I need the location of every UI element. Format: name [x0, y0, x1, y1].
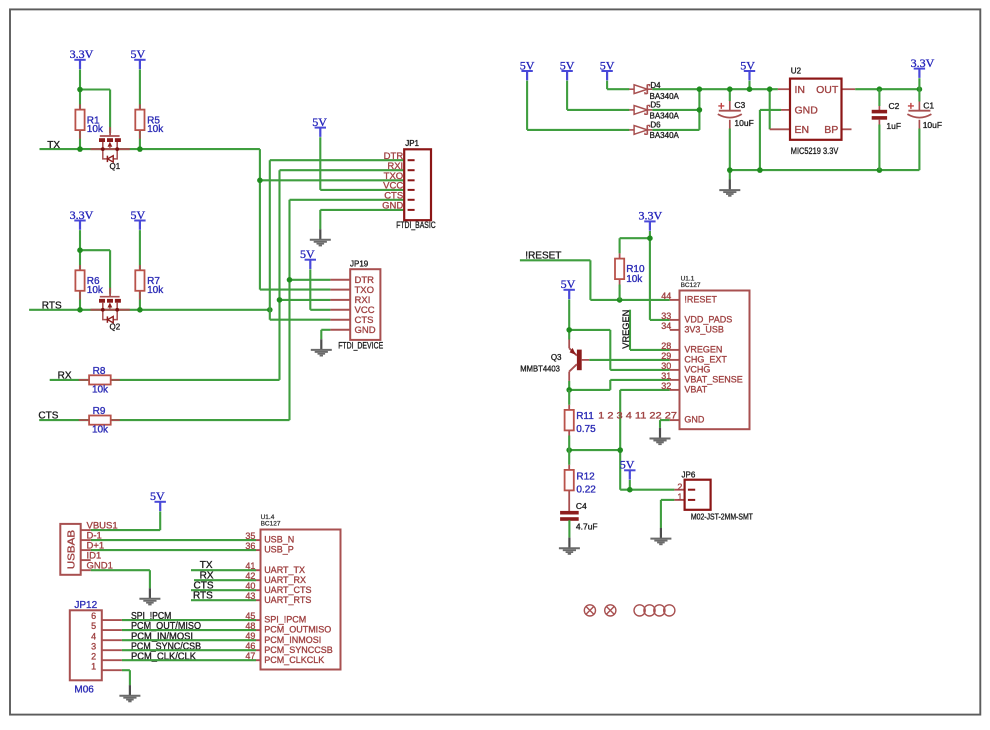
svg-text:44: 44 — [661, 291, 671, 301]
svg-text:C1: C1 — [923, 101, 934, 111]
svg-text:Q3: Q3 — [551, 353, 562, 362]
wire USB D- net — [91, 539, 256, 541]
wire RXI bus (JP1.RXI - JP19.RXI - RX) — [277, 170, 404, 380]
svg-text:10k: 10k — [626, 274, 643, 285]
ground (C4) — [559, 538, 580, 554]
svg-text:GND1: GND1 — [87, 561, 113, 572]
svg-text:Q1: Q1 — [110, 162, 121, 171]
supply 3.3V (RTS pull-up) — [70, 208, 94, 230]
wire PCM row 3 — [122, 649, 256, 651]
wire JP1 GND — [320, 210, 403, 229]
supply 5V (D5 input) — [560, 58, 575, 80]
wire 5V to 3V3_USB/VCHG and Q3 emitter — [566, 299, 669, 370]
fiducial mark 1 — [584, 605, 595, 616]
svg-text:36: 36 — [245, 541, 255, 551]
svg-text:1uF: 1uF — [886, 121, 901, 131]
svg-text:49: 49 — [245, 631, 255, 641]
wire U2 GND to ground rail — [760, 110, 790, 170]
wire U2 EN tie to input — [767, 86, 790, 129]
wire ground rail (regulator) — [727, 129, 919, 180]
wire 5V to JP19 VCC — [310, 269, 330, 310]
svg-text:10k: 10k — [92, 424, 109, 435]
supply 5V (regulator input) — [740, 58, 755, 80]
svg-text:M06: M06 — [74, 684, 94, 695]
IC block U1.1 BC127 (power pins) — [598, 275, 749, 429]
supply 5V (JP19 VCC) — [300, 247, 316, 269]
svg-text:0.22: 0.22 — [576, 484, 596, 495]
diode D6 BA340A — [629, 125, 652, 134]
transistor Q1 (MOSFET level shifter) — [91, 127, 130, 162]
supply 5V (TX pull-up) — [130, 47, 145, 69]
wire VREGEN net — [630, 310, 670, 350]
wire CHG_EXT net — [589, 359, 670, 361]
svg-text:RTS: RTS — [42, 300, 62, 311]
svg-text:5V: 5V — [561, 277, 576, 291]
wire RTS net — [29, 230, 270, 310]
wire 5V / VBAT to JP6 pin 2 — [620, 480, 684, 493]
wire UART_RTS stub — [191, 599, 256, 601]
wire VBAT_SENSE net — [566, 380, 669, 393]
ground (U1.1 GND) — [650, 428, 671, 444]
resistor R10 10k — [615, 253, 645, 300]
svg-text:5V: 5V — [520, 58, 535, 72]
svg-text:PCM_OUTMISO: PCM_OUTMISO — [264, 625, 331, 635]
svg-text:31: 31 — [661, 371, 671, 381]
svg-text:C3: C3 — [734, 100, 745, 110]
svg-text:RX: RX — [58, 370, 72, 381]
wire CTS bus (JP1.CTS - JP19.DTR - CTS) — [287, 200, 404, 420]
svg-text:C2: C2 — [889, 101, 900, 111]
wire PCM row 2 — [122, 659, 256, 661]
svg-text:BA340A: BA340A — [650, 92, 680, 101]
svg-text:USB_P: USB_P — [264, 545, 294, 555]
svg-text:46: 46 — [245, 641, 255, 651]
supply 5V (D4 input) — [600, 58, 615, 80]
ground (JP1) — [310, 229, 331, 245]
svg-text:BA340A: BA340A — [650, 111, 680, 120]
svg-text:BC127: BC127 — [261, 521, 281, 528]
svg-text:SPI_!PCM: SPI_!PCM — [264, 615, 306, 625]
connector JP1 FTDI_BASIC — [382, 139, 436, 230]
wire U1.1 GND pin to ground — [660, 420, 670, 428]
wire USB D+ net — [91, 549, 256, 551]
svg-text:UART_TX: UART_TX — [264, 565, 305, 575]
svg-text:45: 45 — [245, 611, 255, 621]
connector JP6 M02-JST-2MM-SMT — [677, 471, 753, 522]
voltage regulator U2 MIC5219 3.3V — [778, 67, 855, 157]
svg-text:USBAB: USBAB — [66, 529, 77, 569]
supply 5V (JP6) — [620, 458, 636, 480]
svg-text:VBAT_SENSE: VBAT_SENSE — [684, 375, 742, 385]
svg-text:5V: 5V — [312, 115, 327, 129]
wire 3.3V output rail — [855, 86, 922, 92]
wire RX net — [50, 379, 280, 381]
svg-text:IN: IN — [795, 84, 806, 96]
svg-text:10k: 10k — [147, 124, 164, 135]
svg-text:GND: GND — [355, 325, 376, 336]
wire GND1 to ground — [91, 570, 150, 588]
svg-text:GND: GND — [795, 104, 819, 116]
resistor R1 10k — [75, 104, 104, 139]
wire VBAT net — [566, 390, 669, 490]
ground (regulator rail) — [719, 180, 740, 196]
svg-text:29: 29 — [661, 351, 671, 361]
wire VBUS1 net — [91, 511, 161, 530]
svg-text:FTDI_DEVICE: FTDI_DEVICE — [338, 340, 383, 350]
svg-text:PCM_SYNCCSB: PCM_SYNCCSB — [264, 645, 333, 655]
supply 3.3V (BC127) — [638, 209, 662, 231]
junction dots RTS section — [77, 247, 272, 312]
capacitor C3 10uF — [718, 86, 754, 170]
svg-text:0.75: 0.75 — [576, 424, 596, 435]
resistor R12 0.22 — [565, 450, 597, 511]
svg-text:VDD_PADS: VDD_PADS — [684, 315, 732, 325]
svg-text:R11: R11 — [576, 411, 594, 422]
capacitor C4 4.7uF — [560, 501, 598, 538]
capacitor C1 10uF — [907, 89, 942, 130]
svg-text:JP19: JP19 — [350, 259, 369, 268]
svg-text:5: 5 — [91, 621, 96, 631]
svg-text:42: 42 — [245, 571, 255, 581]
svg-text:VREGEN: VREGEN — [621, 310, 632, 349]
svg-text:3V3_USB: 3V3_USB — [684, 325, 724, 335]
wire DTR bus (JP1.DTR - RTS - JP19.CTS) — [270, 160, 404, 320]
supply 5V (D6 input) — [520, 58, 535, 80]
resistor R8 10k — [79, 366, 120, 396]
svg-text:GND: GND — [382, 201, 403, 212]
svg-text:10k: 10k — [147, 285, 164, 296]
resistor R9 10k — [79, 406, 120, 435]
svg-text:10k: 10k — [87, 285, 104, 296]
wire JP19 GND — [321, 330, 330, 340]
svg-text:10k: 10k — [92, 384, 109, 395]
wire UART_RX stub — [194, 579, 256, 581]
svg-text:2: 2 — [91, 651, 96, 661]
wire 3.3V to R1 / Q1 gate — [80, 69, 110, 149]
supply 5V (BC127 power) — [561, 277, 576, 299]
svg-text:10uF: 10uF — [923, 120, 942, 130]
wire CTS net — [39, 419, 289, 421]
transistor Q2 (MOSFET level shifter) — [91, 288, 130, 323]
connector USBAB — [60, 521, 117, 575]
svg-text:1: 1 — [91, 661, 96, 671]
mounting holes chain — [634, 605, 675, 616]
svg-text:CHG_EXT: CHG_EXT — [684, 355, 727, 365]
svg-text:4: 4 — [91, 631, 96, 641]
fiducial mark 2 — [605, 605, 616, 616]
svg-text:!RESET: !RESET — [684, 295, 717, 305]
svg-text:OUT: OUT — [816, 84, 839, 96]
wire !RESET net — [520, 260, 670, 302]
wire 5V supply stub to rail — [747, 81, 753, 92]
svg-text:43: 43 — [245, 591, 255, 601]
resistor R5 10k — [135, 104, 164, 139]
svg-text:28: 28 — [661, 341, 671, 351]
svg-text:2: 2 — [677, 482, 682, 492]
svg-text:U2: U2 — [791, 67, 802, 76]
svg-text:33: 33 — [661, 311, 671, 321]
svg-text:5V: 5V — [300, 247, 315, 261]
supply 3.3V (TX pull-up) — [70, 47, 94, 69]
svg-text:JP12: JP12 — [74, 600, 97, 611]
svg-text:JP1: JP1 — [405, 139, 419, 148]
ground (JP19) — [311, 339, 332, 355]
wire PCM row 5 — [122, 629, 256, 631]
svg-text:1 2 3 4 11 22 27: 1 2 3 4 11 22 27 — [598, 410, 677, 420]
ground (JP6) — [650, 528, 671, 544]
wire JP6 pin 1 to ground — [661, 500, 685, 528]
svg-text:VREGEN: VREGEN — [684, 345, 722, 355]
connector JP19 FTDI_DEVICE — [330, 259, 383, 350]
svg-text:41: 41 — [245, 561, 255, 571]
wire JP12 pin1 to ground — [122, 670, 130, 685]
diode D5 BA340A — [629, 105, 652, 114]
junction dots TX section — [77, 87, 263, 183]
svg-text:GND: GND — [684, 415, 705, 425]
svg-text:Q2: Q2 — [110, 323, 121, 332]
ground (USB GND1) — [139, 588, 160, 604]
wire 3.3V to R6 / Q2 gate — [80, 230, 110, 310]
transistor Q3 MMBT4403 (PNP) — [569, 340, 589, 381]
svg-text:VCHG: VCHG — [684, 365, 710, 375]
svg-text:40: 40 — [245, 581, 255, 591]
svg-text:5V: 5V — [150, 489, 165, 503]
wire TX net — [40, 69, 404, 289]
wire diode cathodes to 5V rail — [652, 86, 778, 130]
svg-text:UART_RTS: UART_RTS — [264, 595, 311, 605]
svg-text:4.7uF: 4.7uF — [576, 522, 598, 532]
svg-text:UART_RX: UART_RX — [264, 575, 306, 585]
ground (JP12 pin1) — [119, 685, 140, 701]
svg-text:PCM_INMOSI: PCM_INMOSI — [264, 635, 321, 645]
wire PCM row 4 — [122, 639, 256, 641]
svg-text:3.3V: 3.3V — [70, 47, 94, 61]
supply 3.3V (regulator output) — [911, 56, 935, 78]
svg-text:D5: D5 — [650, 101, 661, 110]
connector JP12 M06 — [70, 600, 122, 695]
svg-text:35: 35 — [245, 531, 255, 541]
wire 3.3V to R10 and VDD_PADS — [620, 231, 670, 320]
svg-text:34: 34 — [661, 321, 671, 331]
resistor R6 10k — [75, 265, 104, 300]
svg-text:CTS: CTS — [38, 410, 58, 421]
svg-text:C4: C4 — [576, 501, 587, 511]
supply 5V (JP1 VCC) — [312, 115, 327, 137]
svg-text:6: 6 — [91, 611, 96, 621]
supply 5V (USB VBUS) — [150, 489, 166, 511]
resistor R11 0.75 — [565, 390, 597, 450]
svg-text:10uF: 10uF — [734, 118, 753, 128]
svg-text:EN: EN — [795, 124, 810, 136]
svg-text:32: 32 — [661, 381, 671, 391]
svg-text:5V: 5V — [560, 58, 575, 72]
svg-text:PCM_CLKCLK: PCM_CLKCLK — [264, 655, 324, 665]
svg-text:UART_CTS: UART_CTS — [264, 585, 311, 595]
svg-text:USB_N: USB_N — [264, 535, 294, 545]
svg-text:3.3V: 3.3V — [638, 209, 662, 223]
resistor R7 10k — [135, 265, 164, 300]
svg-text:BC127: BC127 — [681, 282, 701, 289]
IC block U1.4 BC127 (USB/UART/PCM pins) — [245, 514, 340, 669]
svg-text:R12: R12 — [576, 472, 595, 483]
svg-text:FTDI_BASIC: FTDI_BASIC — [396, 220, 436, 230]
svg-text:BP: BP — [824, 124, 838, 136]
svg-text:5V: 5V — [740, 58, 755, 72]
svg-text:3.3V: 3.3V — [70, 208, 94, 222]
svg-text:BA340A: BA340A — [650, 131, 680, 140]
svg-text:R8: R8 — [93, 366, 106, 377]
svg-text:JP6: JP6 — [682, 471, 696, 480]
diode D4 BA340A — [629, 85, 652, 94]
wire UART_CTS stub — [191, 589, 256, 591]
svg-text:MIC5219 3.3V: MIC5219 3.3V — [791, 146, 839, 156]
svg-text:R9: R9 — [93, 406, 106, 417]
svg-text:3: 3 — [91, 641, 96, 651]
capacitor C2 1uF — [872, 89, 901, 170]
svg-text:3.3V: 3.3V — [911, 56, 935, 70]
svg-text:5V: 5V — [620, 458, 635, 472]
svg-text:5V: 5V — [130, 47, 145, 61]
svg-text:1: 1 — [677, 492, 682, 502]
svg-text:47: 47 — [245, 651, 255, 661]
svg-text:5V: 5V — [600, 58, 615, 72]
svg-text:5V: 5V — [130, 208, 145, 222]
svg-text:D6: D6 — [650, 121, 661, 130]
wire SPI/PCM row 6 — [122, 619, 256, 621]
svg-text:MMBT4403: MMBT4403 — [520, 364, 560, 373]
svg-text:VBAT: VBAT — [684, 385, 707, 395]
supply 5V (RTS pull-up) — [130, 208, 145, 230]
wire UART_TX stub — [191, 569, 256, 571]
svg-text:30: 30 — [661, 361, 671, 371]
svg-text:TX: TX — [47, 140, 60, 151]
svg-text:48: 48 — [245, 621, 255, 631]
svg-text:M02-JST-2MM-SMT: M02-JST-2MM-SMT — [691, 513, 753, 522]
wire 5V to JP1 VCC — [320, 137, 403, 190]
wire 5V feeds to diodes — [527, 81, 629, 130]
svg-text:10k: 10k — [87, 124, 104, 135]
